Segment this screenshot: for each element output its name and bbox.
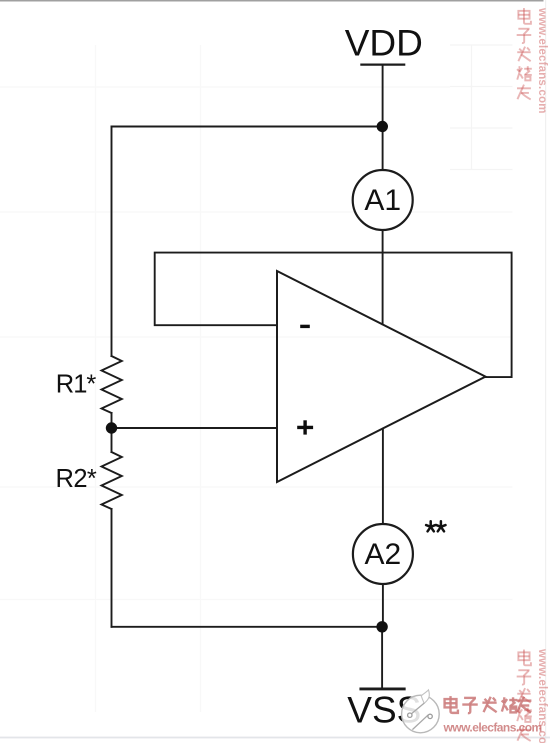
svg-text:www.elecfans.com: www.elecfans.com	[536, 7, 548, 114]
svg-text:A1: A1	[364, 184, 401, 217]
svg-text:VDD: VDD	[345, 23, 423, 64]
svg-text:R1*: R1*	[56, 370, 97, 398]
svg-text:www.elecfans.com: www.elecfans.com	[536, 648, 548, 743]
svg-text:R2*: R2*	[56, 465, 97, 493]
svg-text:A2: A2	[365, 538, 402, 571]
